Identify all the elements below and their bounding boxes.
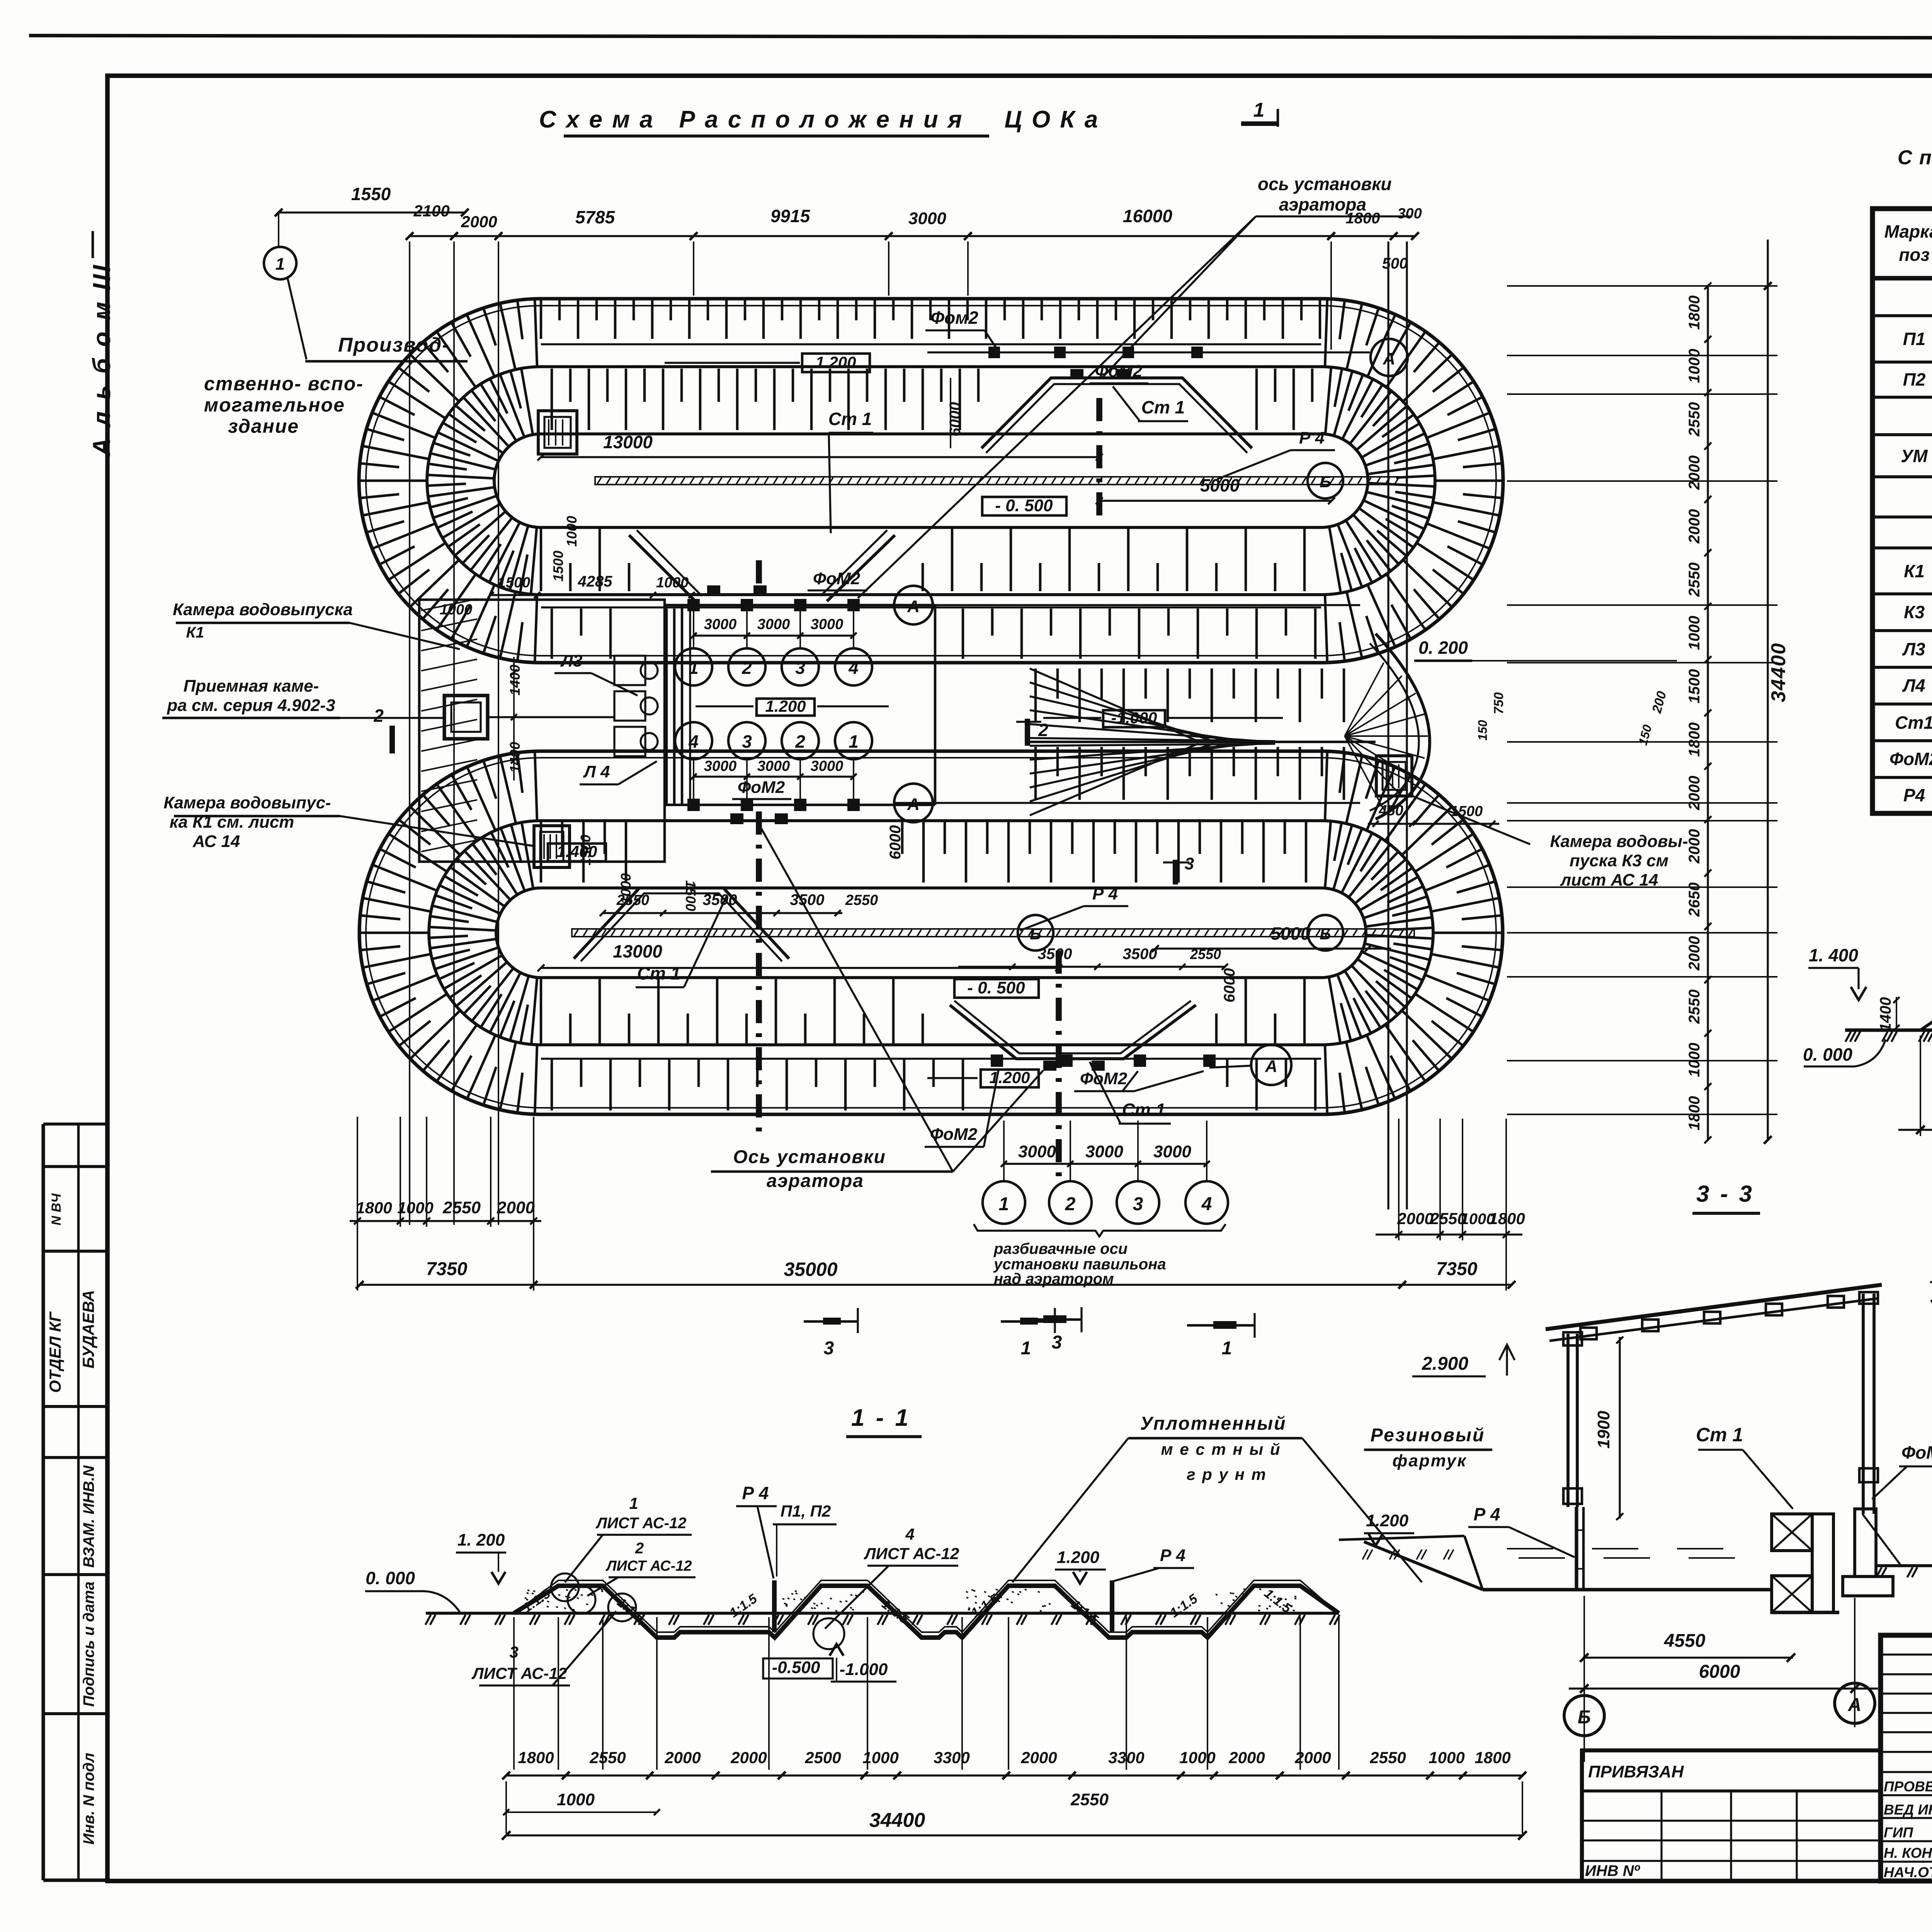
svg-text:2000: 2000 [664, 1748, 701, 1767]
svg-text:1. 200: 1. 200 [457, 1531, 505, 1549]
svg-text:16000: 16000 [1123, 206, 1172, 226]
long axis verticals [1387, 241, 1389, 1209]
svg-text:13000: 13000 [603, 432, 653, 452]
svg-text:1500: 1500 [1450, 803, 1483, 820]
svg-text:П2: П2 [1903, 369, 1926, 389]
svg-text:1800: 1800 [1686, 723, 1703, 757]
svg-text:ра см. серия 4.902-3: ра см. серия 4.902-3 [167, 696, 335, 715]
hatched wall marker [1577, 1530, 1583, 1569]
svg-text:К3: К3 [1904, 602, 1925, 622]
left retaining wall [1575, 1507, 1578, 1590]
pavilion 1.200 box [757, 699, 815, 716]
svg-text:ВЕД ИНЖ.: ВЕД ИНЖ. [1884, 1802, 1932, 1818]
section flag 2 mid [1025, 719, 1030, 746]
svg-text:3000: 3000 [1085, 1142, 1123, 1161]
svg-text:Р4: Р4 [1903, 785, 1925, 805]
svg-text:13000: 13000 [613, 941, 662, 961]
svg-text:2000: 2000 [461, 213, 497, 231]
svg-text:ПРИВЯЗАН: ПРИВЯЗАН [1588, 1762, 1684, 1781]
svg-text:1500: 1500 [498, 575, 531, 591]
svg-text:1000: 1000 [1686, 616, 1703, 650]
svg-text:3000: 3000 [757, 758, 790, 774]
A axis circles [1371, 339, 1408, 376]
svg-text:Р 4: Р 4 [742, 1483, 769, 1503]
priyomnaya kamera square [444, 696, 488, 739]
-1.000 box mid strip [1103, 710, 1165, 727]
svg-text:Р 4: Р 4 [1299, 429, 1325, 447]
bottom axis circles 1-4 [983, 1181, 1025, 1224]
svg-text:1. 400: 1. 400 [1809, 945, 1858, 965]
spec table grid [1872, 209, 1932, 813]
right transition structure [1376, 634, 1430, 819]
svg-text:Приемная каме-: Приемная каме- [184, 677, 319, 696]
svg-text:5785: 5785 [575, 207, 616, 227]
svg-text:3000: 3000 [811, 616, 844, 633]
svg-text:3000: 3000 [908, 209, 946, 228]
svg-text:ОТДЕЛ КГ: ОТДЕЛ КГ [46, 1311, 64, 1393]
1900 dim [1619, 1337, 1621, 1519]
svg-text:2500: 2500 [804, 1748, 841, 1767]
-0.500 boxes [982, 497, 1066, 515]
svg-text:2550: 2550 [1686, 402, 1703, 437]
pavilion axis circles top [675, 648, 712, 685]
right camera K3 [1376, 756, 1412, 796]
svg-text:3: 3 [742, 731, 752, 752]
svg-text:Р 4: Р 4 [1473, 1504, 1500, 1524]
svg-text:здание: здание [228, 415, 299, 437]
embankment profile [1920, 997, 1932, 1030]
pavilion outline top edge [665, 604, 935, 607]
slope stipple 1-1 [525, 1589, 1296, 1611]
section marks 3 and 1 above 1-1 [804, 1320, 858, 1323]
5000 dims [1099, 500, 1332, 502]
34400 total dim [506, 1834, 1522, 1836]
svg-text:-1.000: -1.000 [1111, 709, 1157, 727]
svg-text:2000: 2000 [1020, 1748, 1057, 1767]
upper channel cap hatching [427, 368, 537, 594]
svg-text:2000: 2000 [1686, 936, 1703, 971]
svg-text:1800: 1800 [1686, 1096, 1703, 1131]
svg-text:2550: 2550 [1686, 990, 1703, 1024]
svg-text:1: 1 [1253, 99, 1265, 121]
upper channel mid outline [427, 367, 1435, 595]
left platform area [419, 600, 665, 862]
svg-text:фартук: фартук [1392, 1451, 1467, 1470]
bottom total dims 7350 35000 7350 [360, 1284, 1512, 1286]
svg-text:Б: Б [1320, 473, 1331, 491]
lower channel outer outline [359, 751, 1503, 1114]
svg-text:ФоМ2: ФоМ2 [1080, 1069, 1128, 1088]
svg-text:1.200: 1.200 [1366, 1511, 1409, 1530]
svg-text:Л3: Л3 [560, 651, 583, 670]
svg-text:ФоМ2: ФоМ2 [930, 1125, 978, 1144]
svg-text:Производ-: Производ- [338, 334, 450, 356]
axis circles [1564, 1696, 1604, 1736]
1-1 ground line [426, 1612, 1339, 1615]
svg-text:аэратора: аэратора [1279, 194, 1366, 214]
svg-text:Б: Б [1578, 1707, 1591, 1728]
svg-text:ФоМ2: ФоМ2 [738, 778, 785, 797]
svg-text:6000: 6000 [947, 402, 964, 437]
svg-text:2: 2 [795, 731, 805, 752]
3500 3500 2550 dims lower [603, 912, 842, 914]
svg-text:4: 4 [1201, 1194, 1212, 1214]
svg-text:0. 000: 0. 000 [1803, 1044, 1852, 1065]
svg-text:2000: 2000 [497, 1198, 535, 1217]
svg-text:1800: 1800 [518, 1748, 554, 1767]
svg-text:5000: 5000 [1200, 475, 1240, 495]
projection lines 1-1 [513, 1617, 515, 1770]
upper waterline [595, 477, 1406, 485]
svg-text:Л4: Л4 [1902, 675, 1925, 696]
svg-text:2.900: 2.900 [1422, 1354, 1468, 1374]
svg-text:аэратора: аэратора [767, 1171, 864, 1191]
bottom trapezoid on lower oval [950, 1005, 1196, 1059]
lower channel hatching straight bands [541, 821, 1306, 883]
svg-text:3000: 3000 [704, 616, 737, 633]
svg-text:Резиновый: Резиновый [1371, 1425, 1485, 1446]
pavilion bottom foundation squares [687, 799, 700, 811]
svg-text:3: 3 [795, 658, 805, 678]
svg-text:2100: 2100 [413, 202, 449, 220]
svg-text:Инв. N подл: Инв. N подл [80, 1753, 97, 1845]
svg-text:1: 1 [999, 1194, 1009, 1214]
svg-text:1000: 1000 [440, 602, 473, 618]
svg-text:Ст 1: Ст 1 [637, 963, 680, 983]
svg-text:ЛИСТ АС-12: ЛИСТ АС-12 [605, 1558, 692, 1574]
right foundation [1855, 1509, 1876, 1577]
left platform hatch [421, 599, 477, 852]
svg-text:3000: 3000 [1153, 1142, 1191, 1161]
middle strip between ovals [1028, 741, 1376, 743]
svg-text:2550: 2550 [1369, 1748, 1406, 1767]
svg-text:6000: 6000 [1699, 1662, 1740, 1682]
cross blocks Ст1 [1772, 1514, 1812, 1551]
section flag 2 left [389, 726, 395, 753]
svg-text:Ст 1: Ст 1 [1141, 397, 1185, 417]
svg-text:Камера водовы-: Камера водовы- [1550, 832, 1688, 851]
svg-text:6000: 6000 [887, 825, 904, 860]
svg-text:2: 2 [1038, 720, 1048, 740]
svg-text:Р 4: Р 4 [1092, 884, 1118, 903]
svg-text:Ось установки: Ось установки [733, 1147, 886, 1167]
Б axis circles [1308, 463, 1343, 498]
svg-text:ФоМ2: ФоМ2 [1889, 749, 1932, 769]
privyazan mini table [1582, 1750, 1881, 1881]
horizontal projection lines right [1507, 285, 1777, 287]
pavilion axis circles bottom [675, 722, 712, 759]
svg-text:-0.500: -0.500 [772, 1658, 820, 1677]
svg-text:7350: 7350 [426, 1259, 468, 1279]
svg-text:- 0. 500: - 0. 500 [967, 978, 1025, 997]
1.200 box upper band [802, 354, 870, 372]
section flag 3 inside plan [1173, 860, 1178, 884]
dims 4550/6000 [1583, 1656, 1793, 1658]
svg-text:АС 14: АС 14 [192, 832, 240, 851]
svg-text:2550: 2550 [1686, 563, 1703, 597]
svg-text:2000: 2000 [1686, 456, 1703, 490]
svg-text:2550: 2550 [1190, 946, 1221, 962]
svg-text:2000: 2000 [1686, 829, 1703, 864]
pavilion dims 3000 bottom [694, 776, 854, 777]
trapezoid above pavilion [629, 535, 895, 601]
svg-text:2000: 2000 [730, 1748, 767, 1767]
svg-text:2: 2 [373, 706, 384, 726]
svg-text:П1: П1 [1903, 329, 1926, 349]
svg-text:Л3: Л3 [1902, 639, 1925, 659]
svg-text:ственно- вспо-: ственно- вспо- [204, 373, 364, 395]
svg-text:К1: К1 [186, 624, 204, 641]
bottom dim row right [1376, 1233, 1522, 1235]
upper trapezoid Ст1 [981, 378, 1252, 448]
svg-text:ось установки: ось установки [1258, 174, 1392, 194]
lower 1.200 box [981, 1070, 1039, 1087]
1-1 dim chain [506, 1774, 1522, 1776]
svg-text:4: 4 [905, 1525, 914, 1543]
top dim chain [410, 235, 1415, 237]
svg-text:3000: 3000 [704, 758, 737, 774]
svg-text:Л 4: Л 4 [583, 762, 610, 781]
Р4 walls in 1-1 [772, 1580, 777, 1632]
upper trapezoid axis [1096, 398, 1102, 518]
svg-text:1: 1 [629, 1494, 638, 1512]
upper channel inner wall top [494, 434, 1368, 527]
upper camera on upper oval [538, 411, 577, 454]
svg-text:3: 3 [1133, 1194, 1143, 1214]
svg-text:А: А [1265, 1057, 1277, 1076]
section 2-2 ground line [1845, 1028, 1932, 1032]
svg-text:2550: 2550 [1070, 1790, 1109, 1809]
svg-text:1 - 1: 1 - 1 [851, 1405, 911, 1431]
svg-text:Камера водовыпуска: Камера водовыпуска [173, 600, 353, 619]
svg-text:ЛИСТ АС-12: ЛИСТ АС-12 [595, 1515, 687, 1532]
svg-text:Подпись и дата: Подпись и дата [80, 1582, 97, 1707]
dim 1500 4285 1000 [491, 594, 692, 596]
1550 dim [279, 211, 465, 213]
svg-text:1550: 1550 [351, 184, 391, 204]
lotok L3/L4 assembly [665, 609, 668, 806]
svg-text:1000: 1000 [1429, 1748, 1464, 1767]
svg-text:Н. КОНТР: Н. КОНТР [1884, 1845, 1932, 1861]
pavilion vertical axis dash-dot [756, 560, 762, 591]
svg-text:150: 150 [1476, 720, 1490, 741]
svg-text:1000: 1000 [564, 516, 580, 547]
svg-text:ФоМ2: ФоМ2 [1901, 1442, 1932, 1463]
svg-text:3500: 3500 [1038, 946, 1072, 963]
svg-text:1000: 1000 [1686, 349, 1703, 383]
svg-text:3500: 3500 [1123, 946, 1157, 963]
svg-text:К1: К1 [1904, 561, 1925, 581]
svg-text:2000: 2000 [1397, 1209, 1433, 1228]
svg-text:ГИП: ГИП [1884, 1825, 1913, 1840]
svg-text:Ст 1: Ст 1 [1696, 1424, 1743, 1446]
svg-text:500: 500 [1382, 255, 1408, 272]
zigzag profile [514, 1586, 1339, 1638]
svg-text:1000: 1000 [557, 1790, 595, 1809]
razbivochnye osi brace and text [974, 1224, 1226, 1236]
svg-text:Б: Б [1320, 925, 1331, 943]
lower channel cap hatching [429, 822, 537, 1044]
svg-text:м е с т н ы й: м е с т н ы й [1161, 1440, 1281, 1458]
svg-text:1.200: 1.200 [989, 1068, 1030, 1087]
svg-text:1000: 1000 [1179, 1748, 1215, 1767]
svg-text:2550: 2550 [442, 1198, 481, 1217]
svg-text:4: 4 [848, 658, 859, 678]
svg-text:пуска К3 см: пуска К3 см [1570, 851, 1668, 870]
svg-text:34400: 34400 [869, 1809, 925, 1832]
svg-text:9915: 9915 [770, 206, 811, 226]
svg-text:4550: 4550 [1664, 1631, 1706, 1651]
svg-text:БУДАЕВА: БУДАЕВА [79, 1290, 97, 1368]
bottom fom2 squares row [991, 1054, 1003, 1067]
svg-text:А: А [1848, 1695, 1862, 1715]
svg-text:35000: 35000 [784, 1259, 837, 1280]
upper channel hatching straight bands [541, 299, 1320, 339]
svg-text:3000: 3000 [811, 758, 844, 774]
svg-text:Уплотненный: Уплотненный [1140, 1413, 1287, 1434]
svg-text:1500: 1500 [578, 835, 594, 866]
svg-text:П1, П2: П1, П2 [781, 1502, 831, 1520]
building roof [1546, 1285, 1882, 1329]
svg-text:1500: 1500 [683, 880, 699, 911]
svg-text:А: А [907, 597, 920, 616]
svg-text:ФоМ2: ФоМ2 [813, 569, 861, 588]
svg-text:4285: 4285 [578, 573, 613, 590]
2550 3500 3500 2550 dims bottom trapezoid [958, 966, 1225, 968]
svg-text:1.200: 1.200 [815, 353, 856, 371]
svg-text:2000: 2000 [1228, 1748, 1265, 1767]
svg-text:1500: 1500 [1686, 669, 1703, 704]
svg-text:1000: 1000 [1686, 1043, 1703, 1077]
svg-text:могательное: могательное [204, 394, 345, 416]
svg-text:3500: 3500 [790, 891, 825, 908]
lower trapezoid Ст1 (into lower channel) [574, 888, 789, 959]
lower channel inner wall [496, 888, 1366, 978]
svg-text:А: А [907, 795, 920, 814]
svg-text:ЛИСТ АС-12: ЛИСТ АС-12 [864, 1544, 959, 1563]
svg-text:3300: 3300 [934, 1748, 969, 1767]
svg-text:Фом2: Фом2 [930, 308, 978, 328]
svg-text:750: 750 [1492, 692, 1506, 714]
svg-text:300: 300 [1397, 206, 1422, 222]
2-2 bottom dim [1898, 1129, 1932, 1131]
fan transition right of pavilion [1030, 668, 1275, 815]
svg-text:0. 200: 0. 200 [1418, 638, 1468, 658]
lower camera on lower oval [534, 826, 570, 867]
svg-text:1: 1 [276, 255, 285, 274]
svg-text:ЛИСТ АС-12: ЛИСТ АС-12 [471, 1664, 567, 1682]
svg-text:1400: 1400 [1877, 997, 1894, 1032]
svg-text:1400: 1400 [507, 742, 523, 773]
svg-text:1900: 1900 [1594, 1411, 1613, 1449]
svg-text:2000: 2000 [1686, 509, 1703, 544]
svg-text:34400: 34400 [1767, 643, 1790, 702]
svg-text:ВЗАМ. ИНВ.N: ВЗАМ. ИНВ.N [80, 1465, 97, 1568]
svg-text:1000: 1000 [397, 1199, 433, 1217]
svg-text:1500: 1500 [550, 551, 566, 582]
svg-text:2550: 2550 [845, 892, 878, 908]
svg-text:3000: 3000 [1018, 1142, 1056, 1161]
13000 dims [541, 456, 1099, 458]
svg-text:3: 3 [1052, 1332, 1062, 1353]
svg-text:1.200: 1.200 [1057, 1548, 1100, 1567]
svg-text:г р у н т: г р у н т [1187, 1465, 1267, 1483]
svg-text:Ст 1: Ст 1 [828, 409, 872, 429]
bottom dim row left [350, 1220, 541, 1222]
svg-text:А л ь б о м III: А л ь б о м III [88, 263, 116, 457]
svg-text:2: 2 [742, 658, 752, 678]
lower waterline [572, 929, 1414, 937]
svg-text:N ВЧ: N ВЧ [49, 1193, 64, 1226]
svg-text:Р 4: Р 4 [1160, 1546, 1185, 1565]
svg-text:3: 3 [1185, 854, 1194, 873]
upper channel outer outline [359, 299, 1503, 663]
svg-text:поз: поз [1899, 245, 1930, 265]
section flags bottom of plan [1020, 1318, 1082, 1321]
svg-text:Ст 1: Ст 1 [1122, 1100, 1165, 1120]
svg-text:-1.000: -1.000 [840, 1660, 888, 1679]
right column [1862, 1294, 1865, 1514]
svg-text:ПРОВЕРИЛ: ПРОВЕРИЛ [1884, 1779, 1932, 1794]
projection lines from top chain [409, 241, 410, 1225]
34400 total vertical [1767, 240, 1769, 1140]
svg-text:1.200: 1.200 [765, 697, 806, 715]
pavilion left edge [681, 605, 684, 805]
lower channel mid outline [429, 821, 1433, 1045]
ground right [1876, 1564, 1932, 1567]
axis 1 top circle column [264, 247, 296, 279]
svg-text:3: 3 [824, 1338, 834, 1359]
left wall [1566, 1334, 1570, 1507]
svg-text:2550: 2550 [589, 1748, 626, 1767]
svg-text:6000: 6000 [1221, 968, 1238, 1003]
svg-text:1000: 1000 [618, 873, 634, 904]
basin water [1483, 1588, 1772, 1591]
svg-text:НАЧ.ОТД: НАЧ.ОТД [1884, 1864, 1932, 1880]
svg-text:1: 1 [849, 731, 859, 752]
svg-text:3000: 3000 [757, 616, 790, 633]
svg-text:5000: 5000 [1271, 923, 1311, 944]
svg-text:7350: 7350 [1436, 1259, 1478, 1279]
bottom verticals [400, 1117, 401, 1227]
svg-text:3500: 3500 [703, 891, 737, 908]
svg-text:2: 2 [635, 1540, 644, 1557]
svg-text:Камера водовыпус-: Камера водовыпус- [163, 793, 331, 812]
svg-text:1: 1 [1222, 1338, 1232, 1359]
svg-text:ИНВ Nº: ИНВ Nº [1585, 1862, 1641, 1879]
svg-text:450: 450 [1378, 803, 1403, 819]
right vertical chain [1707, 286, 1709, 1140]
svg-text:1400: 1400 [507, 665, 523, 696]
svg-text:2000: 2000 [1686, 776, 1703, 811]
svg-text:1000: 1000 [656, 575, 689, 591]
sheet trim border [29, 36, 1932, 39]
svg-text:1800: 1800 [1686, 296, 1703, 330]
svg-text:1800: 1800 [1475, 1748, 1510, 1767]
svg-text:0. 000: 0. 000 [366, 1568, 415, 1588]
top fom2 squares row [988, 347, 1000, 358]
svg-text:1800: 1800 [1489, 1209, 1525, 1228]
svg-text:3 - 3: 3 - 3 [1696, 1181, 1754, 1207]
svg-text:Марка,: Марка, [1884, 221, 1932, 241]
svg-text:УМ: УМ [1901, 446, 1928, 466]
svg-text:2: 2 [1065, 1194, 1076, 1214]
left sidebar stamp boxes [41, 1124, 45, 1880]
pavilion dims 3000 top [694, 634, 854, 636]
svg-text:С х е м а Р а с п о л о ж е: С х е м а Р а с п о л о ж е н и я Ц О К … [539, 106, 1099, 133]
svg-text:1800: 1800 [356, 1199, 392, 1217]
pavilion top foundation squares [687, 599, 700, 611]
